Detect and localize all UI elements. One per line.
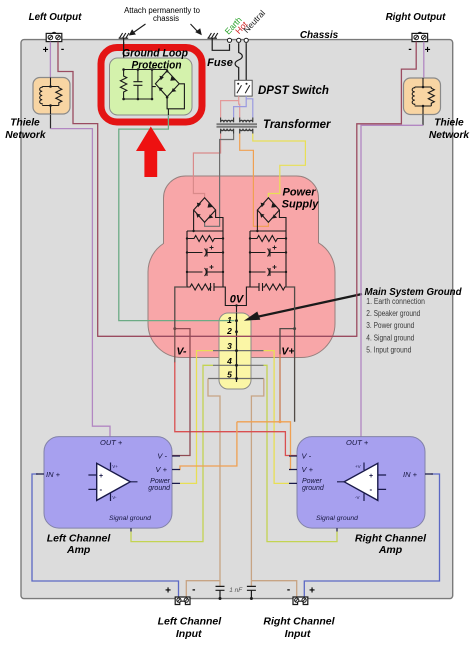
left amp pin stubs (36, 456, 180, 532)
bottom row n2: cap + resistor (250, 283, 288, 291)
svg-text:V+: V+ (112, 464, 118, 469)
resistor in GLP (120, 70, 126, 100)
svg-text:V+: V+ (281, 346, 294, 358)
bottom row n1: resistor + cap (187, 283, 223, 291)
thiele network box right (404, 78, 441, 115)
cap row n1b (187, 268, 223, 276)
0V goalpost (223, 287, 250, 306)
red arrow pointing up at GLP (136, 127, 166, 178)
tap 3 power ground stub (213, 350, 264, 352)
bridge rectifier B2 (257, 198, 279, 223)
resistor row n1 (187, 236, 223, 242)
bridge rectifier B1 (194, 198, 216, 223)
left channel amp box (44, 437, 172, 528)
cap row n1a (187, 249, 223, 257)
tap 5 tan wires (208, 379, 220, 587)
svg-text:V +: V + (156, 465, 168, 474)
capacitor C1 1nF (216, 586, 225, 598)
left amp pin labels (46, 438, 171, 522)
svg-text:Right Channel: Right Channel (355, 533, 427, 545)
svg-text:Left Output: Left Output (29, 12, 83, 23)
svg-text:ground: ground (302, 485, 325, 492)
svg-text:1. Earth connection: 1. Earth connection (366, 297, 425, 306)
wire ground symbol left down into GLP (123, 38, 125, 69)
svg-text:+V: +V (355, 464, 361, 469)
chassis ground symbol right (207, 33, 217, 38)
terminal Neutral (244, 38, 248, 42)
svg-text:Power: Power (282, 187, 316, 199)
wire right thiele to amp OUT (purple) (422, 115, 424, 126)
wire ground symbol into GLP (over ring) (123, 42, 125, 60)
junction dots RC (186, 230, 287, 273)
svg-text:Signal ground: Signal ground (316, 515, 358, 522)
svg-text:1 nF: 1 nF (229, 587, 243, 594)
transformer secondary winding left (221, 129, 234, 134)
bridge2 DC+ to rail (256, 210, 258, 231)
svg-text:2: 2 (226, 326, 232, 336)
svg-text:3. Power ground: 3. Power ground (366, 321, 414, 330)
svg-text:V -: V - (157, 452, 167, 461)
svg-text:+: + (425, 45, 431, 56)
svg-text:5. Input ground: 5. Input ground (366, 345, 411, 354)
svg-text:V-: V- (176, 346, 187, 358)
right input connector (293, 597, 308, 605)
switch pole 2 (246, 83, 248, 85)
svg-text:Fuse: Fuse (207, 57, 233, 69)
svg-text:Left Channel: Left Channel (47, 533, 112, 545)
svg-text:IN +: IN + (46, 470, 61, 479)
svg-text:5: 5 (227, 370, 232, 380)
bridge1 DC- to rail (193, 210, 195, 231)
svg-text:Network: Network (429, 130, 471, 141)
svg-text:Power: Power (150, 478, 171, 485)
svg-text:Thiele: Thiele (10, 117, 40, 128)
arrow to left ground symbol (132, 24, 146, 34)
transformer primary winding right (240, 118, 253, 123)
svg-text:Power: Power (302, 478, 323, 485)
terminal Earth (227, 38, 231, 42)
svg-text:+: + (43, 45, 49, 56)
wire right speaker return (maroon) (357, 42, 416, 337)
tap 3 yellow wires (180, 351, 213, 484)
wire V+ supply (orange) (280, 287, 295, 422)
wire earth from GLP to ground bus tap1 (green) (119, 115, 234, 321)
arrow to main system ground (254, 294, 362, 318)
RC network 2 frame (250, 231, 286, 287)
wire secondary to bridge1 AC2 (gray) (205, 134, 234, 227)
svg-text:1: 1 (227, 315, 232, 325)
chassis ground symbol left (119, 33, 129, 38)
svg-text:DPST Switch: DPST Switch (258, 85, 329, 97)
cap row n2b (250, 268, 286, 276)
tap 4 chartreuse wires (131, 365, 213, 541)
tan wires to input grounds (186, 581, 220, 598)
svg-text:V +: V + (302, 465, 314, 474)
wire neutral from switch to primaries (lavender) (234, 96, 247, 117)
inductor left thiele (40, 87, 43, 105)
svg-text:Right Output: Right Output (386, 12, 447, 23)
wire hot from switch to primaries (salmon) (221, 96, 239, 117)
transformer primary winding left (221, 118, 234, 123)
resistor row n2 (250, 236, 286, 242)
resistor left thiele (56, 87, 62, 106)
inductor right thiele (412, 87, 415, 105)
svg-text:4: 4 (226, 356, 232, 366)
svg-text:+: + (369, 473, 373, 480)
svg-text:Supply: Supply (282, 199, 320, 211)
svg-text:-: - (61, 44, 64, 55)
wire left input signal (blue) (32, 474, 179, 598)
GLP top wire (124, 70, 168, 72)
tap 4 signal ground stub (213, 364, 264, 366)
RC network 1 frame (187, 231, 223, 287)
switch pole 1 (237, 83, 239, 85)
wire left thiele to amp OUT (purple) (50, 114, 52, 129)
transformer secondary winding right (240, 129, 253, 134)
svg-text:-: - (287, 585, 290, 596)
wire left output + post to thiele (purple) (49, 42, 51, 78)
cap row n2a (250, 249, 286, 257)
bus center wire (236, 313, 238, 382)
svg-text:3: 3 (227, 341, 232, 351)
svg-text:Left Channel: Left Channel (158, 615, 223, 627)
svg-text:+: + (309, 586, 315, 597)
svg-text:+: + (165, 586, 171, 597)
svg-text:Amp: Amp (378, 544, 403, 556)
tap 1 earth wire inside bus (green) (219, 320, 235, 322)
transformer core (217, 124, 258, 127)
svg-text:IN +: IN + (403, 470, 418, 479)
svg-text:-: - (408, 44, 411, 55)
svg-text:4. Signal ground: 4. Signal ground (366, 333, 414, 342)
tap 5 input ground stub (208, 378, 264, 380)
svg-text:V-: V- (112, 495, 117, 500)
GLP bridge diodes (159, 76, 177, 92)
svg-text:Signal ground: Signal ground (109, 515, 151, 522)
svg-text:Amp: Amp (66, 544, 91, 556)
svg-text:Ground Loop: Ground Loop (122, 48, 188, 60)
svg-text:chassis: chassis (153, 14, 179, 23)
op-amp U2 (344, 463, 378, 500)
green box (110, 58, 193, 115)
tap junction dots (235, 319, 238, 380)
svg-text:+: + (99, 473, 103, 480)
svg-text:Input: Input (285, 628, 311, 640)
wire right input signal (blue) (304, 474, 439, 598)
svg-text:-: - (192, 585, 195, 596)
arrow to right ground symbol (191, 24, 200, 33)
chassis (21, 40, 453, 599)
wire right output + post to thiele (purple) (423, 42, 425, 78)
junction dots GLP (122, 68, 125, 71)
svg-text:Transformer: Transformer (263, 119, 331, 131)
svg-text:-: - (100, 485, 103, 494)
wire secondary to bridge2 AC1 (orange) (240, 134, 269, 227)
svg-text:Chassis: Chassis (300, 30, 339, 41)
svg-text:Right Channel: Right Channel (263, 615, 335, 627)
svg-text:OUT +: OUT + (100, 438, 123, 447)
right amp pin stubs (289, 456, 433, 532)
left input connector (175, 597, 190, 605)
resistor right thiele (428, 87, 434, 106)
power supply blob (148, 176, 335, 358)
svg-text:OUT +: OUT + (346, 438, 369, 447)
ground bus box (219, 313, 251, 389)
GLP left vertical (152, 70, 156, 100)
wire left speaker return (maroon) (58, 42, 98, 337)
wire ground symbol right to earth terminal (212, 38, 229, 50)
svg-text:2. Speaker ground: 2. Speaker ground (366, 309, 420, 318)
wire V- supply (red) (175, 287, 187, 329)
bridge2 DC- to rail (279, 210, 286, 231)
svg-text:-V: -V (355, 495, 360, 500)
GLP bottom wire (124, 98, 152, 100)
DPST switch box (235, 80, 252, 96)
capacitor C2 1nF (247, 586, 256, 598)
power supply block background (148, 176, 335, 358)
left output connector (46, 32, 62, 41)
svg-text:Network: Network (5, 130, 47, 141)
svg-text:Input: Input (176, 628, 202, 640)
GLP right vertex to exit (167, 84, 184, 109)
fuse symbol on Hot line (235, 43, 242, 80)
thiele network box left (33, 78, 70, 115)
right channel amp box (297, 437, 425, 528)
right amp pin labels (302, 438, 418, 522)
wire secondary to bridge1 AC1 (salmon) (193, 134, 220, 198)
svg-text:V -: V - (302, 452, 312, 461)
bridge rectifier in GLP (155, 71, 179, 97)
right output connector (412, 32, 428, 41)
tap 2 speaker ground wire (maroon) (98, 335, 357, 337)
wire secondary to bridge2 AC2 (yellow) (253, 134, 306, 198)
wire Neutral down to switch (245, 43, 247, 80)
ground loop protection red ring (101, 48, 202, 123)
svg-text:-: - (370, 485, 373, 494)
op-amp U1 (97, 463, 131, 500)
capacitor in GLP (133, 70, 142, 100)
svg-text:0V: 0V (230, 294, 245, 306)
svg-text:Neutral: Neutral (241, 8, 267, 35)
svg-text:Thiele: Thiele (434, 117, 464, 128)
wire 0V to bus (236, 306, 238, 314)
bridge1 DC+ to rail (216, 210, 223, 231)
terminal Hot (237, 38, 241, 42)
svg-text:ground: ground (148, 485, 171, 492)
